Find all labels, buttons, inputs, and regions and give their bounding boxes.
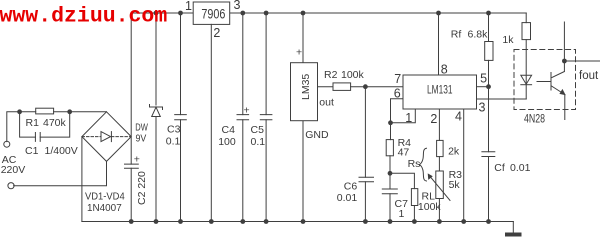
svg-text:5: 5 [480,72,487,86]
svg-text:C1: C1 [25,145,39,157]
svg-text:6: 6 [394,87,401,101]
svg-text:LM131: LM131 [427,85,453,97]
svg-text:8: 8 [441,62,448,76]
svg-text:1k: 1k [502,34,514,46]
svg-text:www.dziuu.com: www.dziuu.com [0,5,167,29]
svg-text:3: 3 [234,0,241,12]
svg-text:9V: 9V [136,132,147,144]
svg-text:100k: 100k [418,201,442,213]
svg-text:+: + [134,154,140,166]
svg-text:fout: fout [579,70,599,82]
svg-text:C3: C3 [167,124,181,136]
svg-text:C5: C5 [251,124,265,136]
svg-text:220V: 220V [1,164,26,176]
svg-text:Cf: Cf [494,162,505,174]
svg-text:3: 3 [479,101,486,115]
svg-text:C6: C6 [344,181,358,193]
svg-text:C4: C4 [222,124,236,136]
svg-text:0.1: 0.1 [166,135,181,147]
svg-text:470k: 470k [43,117,67,129]
svg-text:out: out [319,97,334,109]
svg-text:2: 2 [213,26,220,40]
svg-text:+: + [244,105,250,117]
svg-text:5k: 5k [449,179,461,191]
svg-text:1: 1 [399,208,405,220]
svg-text:0.1: 0.1 [251,136,266,148]
svg-text:6.8k: 6.8k [468,29,489,41]
svg-text:Rf: Rf [451,29,462,41]
svg-text:4N28: 4N28 [524,112,545,126]
svg-text:4: 4 [455,110,462,124]
svg-text:R1: R1 [26,117,40,129]
svg-text:1/400V: 1/400V [45,145,78,157]
svg-text:VD1-VD4: VD1-VD4 [85,190,125,202]
svg-text:R2: R2 [324,69,338,81]
svg-text:+: + [296,47,302,59]
svg-text:2k: 2k [448,146,460,158]
svg-text:100k: 100k [341,69,365,81]
svg-text:100: 100 [218,136,236,148]
svg-text:0.01: 0.01 [337,192,358,204]
svg-text:47: 47 [398,147,410,159]
svg-text:GND: GND [305,129,329,141]
svg-text:7: 7 [394,72,401,86]
svg-text:1: 1 [185,0,192,13]
svg-text:2: 2 [430,112,437,126]
svg-text:LM35: LM35 [300,74,312,100]
svg-text:1: 1 [405,111,412,125]
svg-text:0.01: 0.01 [510,162,531,174]
svg-text:7906: 7906 [201,7,225,22]
svg-text:1N4007: 1N4007 [87,202,122,214]
svg-text:C2 220: C2 220 [136,171,148,205]
svg-text:Rs: Rs [408,158,421,170]
